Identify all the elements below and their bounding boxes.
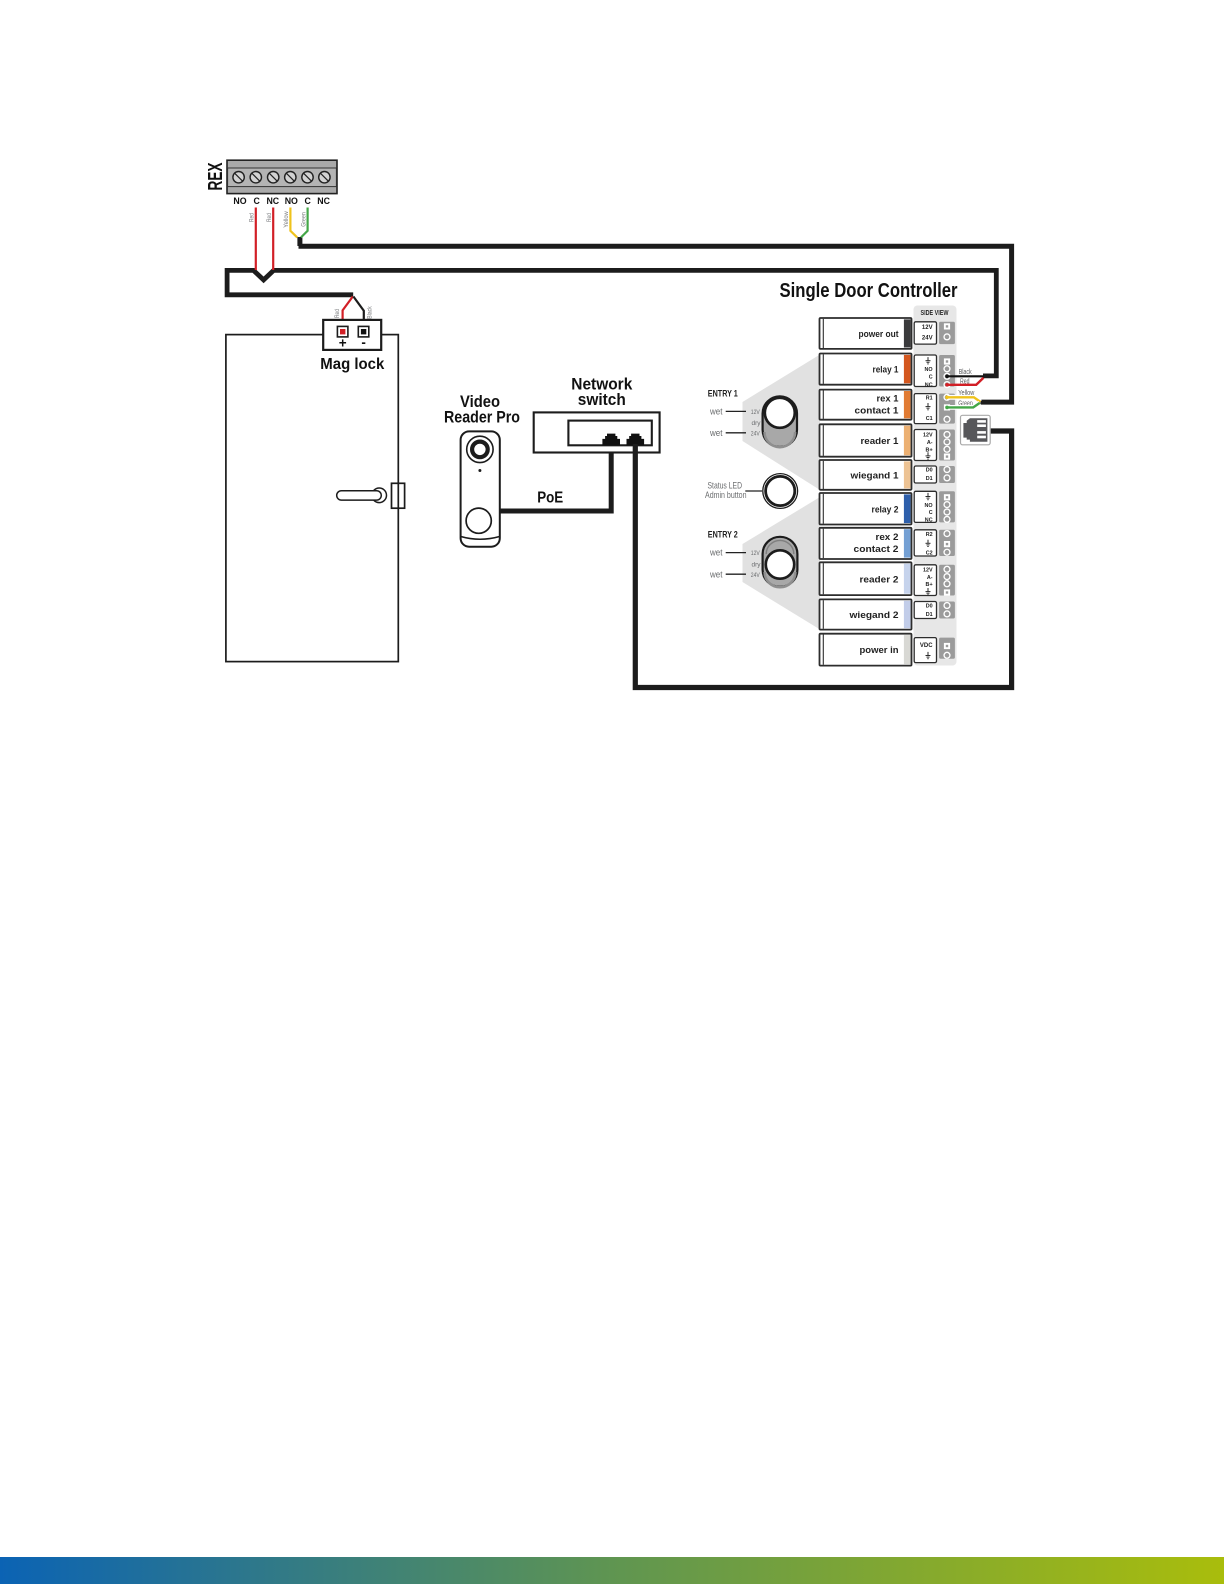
gray beam fan ENTRY 2 [743, 497, 821, 630]
network switch outer box [534, 412, 660, 452]
REX pin labels NO C NC NO C NC [233, 196, 330, 206]
svg-text:Status LED: Status LED [708, 481, 743, 491]
video reader pro body [461, 431, 500, 546]
svg-text:R1: R1 [926, 396, 933, 402]
ENTRY 1 selector knob [763, 396, 797, 447]
wire: thick black pair (red net) REX to mag lock and relay 1 [227, 270, 996, 376]
terminal labels relay 1 [914, 355, 936, 388]
svg-text:D0: D0 [926, 604, 933, 610]
svg-text:NC: NC [925, 382, 933, 388]
svg-text:wiegand 1: wiegand 1 [849, 471, 899, 482]
svg-text:Reader Pro: Reader Pro [444, 408, 520, 427]
mag lock - terminal [358, 326, 369, 337]
svg-text:24V: 24V [922, 335, 933, 341]
svg-text:Red: Red [266, 213, 273, 222]
ENTRY 2 selector knob [763, 537, 798, 587]
wire: junction stub below yellow/green [297, 237, 302, 246]
video reader pro camera [467, 436, 493, 462]
gray beam fan ENTRY 1 [743, 355, 821, 491]
module relay 2 [820, 493, 912, 525]
network switch port 2 [627, 434, 645, 446]
wire green from REX C [301, 208, 308, 238]
svg-text:NC: NC [266, 196, 279, 206]
door outline [226, 335, 398, 662]
svg-text:reader 2: reader 2 [860, 574, 899, 585]
REX screw 3 [268, 172, 279, 183]
svg-text:B+: B+ [926, 582, 933, 588]
svg-text:dry: dry [752, 420, 762, 427]
video reader pro mic dot [478, 469, 481, 472]
svg-text:12V: 12V [922, 325, 933, 331]
status LED admin button circle [763, 474, 798, 509]
side-view terminals relay 2 [939, 491, 955, 522]
svg-text:C: C [929, 374, 933, 380]
wire black to relay1 C [947, 375, 984, 377]
terminal labels reader 2 [914, 565, 936, 596]
svg-text:ENTRY 1: ENTRY 1 [708, 389, 738, 399]
svg-text:rex 1: rex 1 [877, 394, 900, 405]
terminal labels rex 2 [914, 530, 936, 557]
svg-text:power in: power in [860, 645, 899, 656]
svg-text:NO: NO [233, 196, 246, 206]
svg-text:B+: B+ [926, 448, 933, 454]
svg-text:Black: Black [959, 369, 972, 376]
svg-text:PoE: PoE [537, 489, 563, 506]
REX screw 1 [233, 172, 244, 183]
wire green to rex1 ground [947, 403, 980, 408]
module power in [820, 634, 912, 666]
svg-text:wiegand 2: wiegand 2 [848, 610, 898, 621]
module wiegand 1 [820, 460, 912, 490]
REX screw 6 [319, 172, 330, 183]
svg-text:Red: Red [248, 213, 255, 222]
svg-text:ENTRY 2: ENTRY 2 [708, 530, 738, 540]
REX screw 2 [250, 172, 261, 183]
module reader 1 [820, 424, 912, 456]
bottom gradient bar [0, 1557, 1224, 1584]
terminal labels wiegand 2 [914, 602, 936, 619]
REX screw 5 [302, 172, 313, 183]
svg-text:switch: switch [578, 390, 626, 409]
terminal labels power in [914, 638, 936, 663]
wire yellow to rex1 R1 [947, 397, 980, 402]
network switch port 1 [602, 434, 620, 446]
svg-text:12V: 12V [923, 433, 933, 439]
side-view terminals power in [939, 638, 955, 659]
wire network cable switch to controller RJ45 [635, 431, 1011, 688]
video reader pro button [466, 508, 491, 533]
side-view terminals rex 1 [939, 394, 955, 424]
svg-text:SIDE VIEW: SIDE VIEW [921, 308, 950, 317]
module wiegand 2 [820, 599, 912, 629]
svg-text:+: + [339, 336, 347, 351]
svg-text:C2: C2 [926, 551, 933, 557]
svg-text:R2: R2 [926, 532, 933, 538]
svg-text:reader 1: reader 1 [861, 436, 900, 447]
wire red to relay1 NC [947, 378, 984, 385]
svg-text:Admin button: Admin button [705, 490, 747, 500]
svg-text:24V: 24V [751, 431, 761, 438]
svg-text:wet: wet [709, 407, 723, 418]
terminal labels reader 1 [914, 430, 936, 461]
svg-text:C: C [254, 196, 261, 206]
svg-text:NO: NO [925, 503, 933, 509]
module rex 2 contact 2 [820, 528, 912, 559]
mag lock + terminal [337, 326, 348, 337]
svg-text:rex 2: rex 2 [876, 532, 899, 543]
svg-text:C: C [929, 510, 933, 516]
wire red to mag lock + [343, 297, 353, 328]
svg-text:contact 2: contact 2 [854, 544, 899, 555]
svg-text:D0: D0 [926, 468, 933, 474]
wire red from REX NC [272, 208, 274, 271]
svg-text:-: - [361, 335, 366, 350]
svg-text:NO: NO [925, 367, 933, 373]
svg-text:NC: NC [925, 518, 933, 524]
SIDE VIEW panel [914, 306, 957, 666]
mag lock body [323, 320, 381, 350]
module relay 1 [820, 354, 912, 385]
svg-text:24V: 24V [751, 572, 761, 579]
side-view terminals wiegand 2 [939, 602, 955, 619]
network switch inner box [568, 421, 651, 446]
terminal labels rex 1 [914, 394, 936, 424]
RJ45 jack icon [961, 415, 991, 445]
svg-text:D1: D1 [926, 476, 933, 482]
svg-text:C: C [305, 196, 312, 206]
module power out [820, 318, 912, 349]
svg-text:12V: 12V [751, 550, 761, 557]
wire PoE cable reader to switch [500, 444, 611, 511]
svg-text:NO: NO [285, 196, 298, 206]
svg-text:Single Door Controller: Single Door Controller [780, 279, 958, 302]
svg-text:12V: 12V [923, 568, 933, 574]
module rex 1 contact 1 [820, 390, 912, 420]
wire: thick black pair (yellow/green net) REX to controller right side [299, 246, 1012, 402]
svg-text:Green: Green [300, 212, 307, 227]
svg-text:contact 1: contact 1 [855, 405, 900, 416]
door strike plate [392, 483, 405, 508]
side-view terminals reader 1 [939, 430, 955, 461]
svg-text:VDC: VDC [920, 643, 933, 649]
wire red from REX C [255, 208, 257, 271]
side-view terminals wiegand 1 [939, 466, 955, 483]
svg-text:wet: wet [709, 548, 723, 559]
svg-text:C1: C1 [926, 416, 933, 422]
svg-text:Red: Red [334, 309, 341, 318]
svg-text:Mag lock: Mag lock [320, 356, 384, 373]
wire yellow from REX NO [290, 208, 297, 238]
svg-text:D1: D1 [926, 612, 933, 618]
svg-text:dry: dry [752, 561, 762, 568]
svg-text:relay 2: relay 2 [872, 504, 899, 515]
video reader pro base line [461, 537, 500, 540]
door handle rose [372, 488, 387, 503]
svg-text:A-: A- [927, 575, 933, 581]
side-view terminals reader 2 [939, 565, 955, 596]
svg-text:A-: A- [927, 440, 933, 446]
door handle lever [337, 491, 382, 500]
side-view terminals rex 2 [939, 530, 955, 556]
terminal labels relay 2 [914, 491, 936, 523]
side-view terminals power out [939, 322, 955, 344]
svg-text:power out: power out [859, 329, 900, 340]
svg-text:Black: Black [366, 306, 373, 319]
svg-text:wet: wet [709, 428, 723, 439]
svg-text:wet: wet [709, 569, 723, 580]
side-view terminals relay 1 [939, 355, 955, 388]
REX terminal block [227, 160, 337, 193]
svg-text:Yellow: Yellow [283, 211, 290, 228]
wire black to mag lock - [353, 297, 363, 328]
REX screw 4 [285, 172, 296, 183]
terminal labels wiegand 1 [914, 466, 936, 483]
svg-text:relay 1: relay 1 [873, 365, 900, 376]
terminal connection dots [945, 375, 949, 379]
svg-text:12V: 12V [751, 409, 761, 416]
svg-text:REX: REX [205, 162, 227, 190]
module reader 2 [820, 562, 912, 595]
terminal labels power out [914, 322, 936, 344]
svg-text:NC: NC [317, 196, 330, 206]
